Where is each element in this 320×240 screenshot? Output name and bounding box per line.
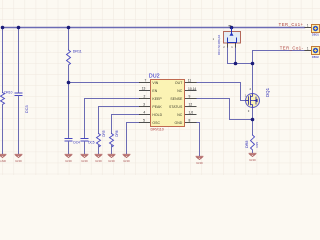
wire: coil right pin down	[235, 48, 237, 64]
svg-text:DC4: DC4	[73, 141, 80, 145]
terminal TER2	[305, 47, 320, 59]
ground x=98.5	[95, 154, 103, 157]
svg-text:VIN: VIN	[152, 81, 158, 85]
wire: SENSE net	[197, 99, 253, 120]
svg-text:DQ1: DQ1	[265, 87, 270, 97]
IC DU2 (DRV110) body	[149, 73, 185, 131]
pin 11 OUT stub	[185, 82, 197, 84]
pin 3 PEAK stub	[139, 106, 150, 108]
svg-text:1: 1	[307, 23, 309, 27]
pin 5 OSC stub	[139, 122, 150, 124]
wire: drop x=18.5 to capacitor DC3	[18, 28, 20, 93]
svg-text:GND: GND	[81, 159, 89, 163]
ground x=126.5	[123, 154, 131, 157]
svg-text:4: 4	[143, 110, 145, 114]
ground x=18.5	[15, 154, 23, 157]
wire: PEAK net down to resistor DR5	[99, 107, 140, 134]
svg-text:STATUS: STATUS	[169, 105, 183, 109]
wire: DC4 bottom to ground	[68, 142, 70, 154]
svg-text:KEEP: KEEP	[152, 97, 162, 101]
wire: VIN net horizontal	[69, 82, 140, 84]
ground symbols (bar + triangle + GND text)	[0, 153, 256, 159]
svg-text:GND: GND	[95, 159, 103, 163]
svg-text:NC: NC	[177, 89, 183, 93]
capacitor DC4	[65, 139, 72, 142]
node bus/DC3	[17, 26, 21, 30]
wire: DR8 to ground	[252, 150, 254, 153]
svg-text:NC: NC	[177, 113, 183, 117]
svg-text:GND: GND	[65, 159, 73, 163]
IC left pin stubs	[139, 83, 197, 123]
pin 12 STATUS stub	[185, 106, 197, 108]
svg-text:OUT: OUT	[175, 81, 183, 85]
svg-text:OSC: OSC	[152, 121, 160, 125]
svg-text:DR10: DR10	[4, 91, 12, 95]
ground x=111.5	[108, 154, 116, 157]
svg-text:GND: GND	[175, 121, 183, 125]
svg-text:8: 8	[189, 118, 191, 122]
svg-text:GND: GND	[108, 159, 116, 163]
pin 8 GND stub	[185, 122, 197, 124]
resistor DR6	[110, 134, 114, 148]
pin 7 VIN stub	[139, 82, 150, 84]
svg-text:TER_Co1+: TER_Co1+	[279, 22, 304, 27]
svg-text:2: 2	[143, 94, 145, 98]
svg-text:R15: R15	[255, 142, 259, 148]
wire: DC5 bottom to ground	[84, 142, 86, 154]
svg-text:EN: EN	[152, 89, 157, 93]
svg-text:PEAK: PEAK	[152, 105, 162, 109]
svg-text:11: 11	[188, 78, 192, 82]
svg-text:DB02: DB02	[312, 55, 320, 59]
wire: OSC net to ground	[127, 123, 140, 154]
svg-text:10,14: 10,14	[188, 87, 196, 91]
wire: GND pin to ground	[197, 123, 200, 156]
wire: top VIN bus	[3, 27, 305, 29]
svg-text:TER_Co1-: TER_Co1-	[280, 45, 304, 50]
svg-text:DC3.7V,40W,6A: DC3.7V,40W,6A	[217, 35, 221, 55]
svg-text:7: 7	[144, 78, 146, 82]
svg-text:1,6: 1,6	[189, 110, 194, 114]
svg-text:GND: GND	[249, 158, 257, 162]
IC pin numbers	[142, 78, 197, 122]
svg-text:GND: GND	[15, 159, 23, 163]
pin 9 SENSE stub	[185, 98, 197, 100]
svg-text:DC5: DC5	[88, 141, 95, 145]
node drain junction	[251, 62, 255, 66]
svg-text:DR5: DR5	[102, 130, 106, 137]
IC pin names	[152, 81, 183, 125]
terminal TER1	[305, 23, 320, 36]
node sense tap	[251, 118, 255, 122]
svg-text:GND: GND	[0, 159, 7, 163]
svg-text:DR6: DR6	[115, 130, 119, 137]
svg-text:GND: GND	[123, 159, 131, 163]
svg-text:DR11: DR11	[73, 49, 82, 53]
resistor DR5	[97, 134, 101, 148]
svg-text:9: 9	[189, 94, 191, 98]
pin 13 EN stub	[139, 90, 150, 92]
node bus/coil	[230, 26, 234, 30]
wire: KEEP net to capacitor DC5	[85, 99, 140, 139]
wire: OUT to MOSFET gate	[197, 83, 246, 101]
node coil pins join	[234, 62, 238, 66]
capacitor DC3	[15, 93, 22, 96]
resistor DR8	[251, 135, 255, 150]
pin 2 KEEP stub	[139, 98, 150, 100]
wire: DC3 bottom to ground	[18, 96, 20, 154]
svg-text:DR8: DR8	[245, 141, 249, 148]
pin 4 HOLD stub	[139, 114, 150, 116]
svg-text:5: 5	[143, 118, 145, 122]
resistor DR11	[67, 50, 71, 65]
svg-text:3: 3	[143, 102, 145, 106]
resistor DR10	[1, 93, 5, 105]
transistor DQ1 (MOSFET)	[245, 87, 260, 113]
wire: source vertical to sense resistor	[252, 108, 254, 136]
wire: DR10 bottom to ground	[2, 105, 4, 154]
ground x=2.5	[0, 154, 6, 157]
wire: left drop x=2.5 to resistor DR10	[2, 28, 4, 93]
wire: HOLD net down to resistor DR6	[112, 115, 140, 134]
svg-text:DU2: DU2	[149, 73, 160, 79]
svg-text:DC3: DC3	[25, 105, 29, 113]
pin 1,6 NC stub	[185, 114, 197, 116]
coil DL1 (solenoid)	[213, 26, 241, 49]
node VIN tap	[67, 81, 71, 85]
node bus left corner	[1, 26, 5, 30]
svg-text:DRV110: DRV110	[151, 128, 164, 132]
svg-text:1: 1	[307, 47, 309, 51]
pin 10,14 NC stub	[185, 90, 197, 92]
svg-text:GND: GND	[196, 161, 204, 165]
wire: drop x=68.5 from bus to resistor DR11	[68, 28, 70, 51]
junction node dots	[1, 26, 255, 122]
wire: DR5 bottom to ground	[98, 145, 100, 154]
wire: DR11 to VIN node and down to capacitor DC4	[68, 65, 70, 138]
ground x=84.5	[81, 154, 89, 157]
coil pin stubs	[228, 43, 236, 48]
ground x=199.5 (IC GND pin)	[196, 156, 204, 159]
wire: DR6 bottom to ground	[111, 145, 113, 154]
svg-text:13: 13	[142, 86, 146, 90]
node bus/DR11	[67, 26, 71, 30]
capacitor DC5	[81, 139, 88, 142]
wire: coil left pin down and across	[228, 48, 253, 64]
svg-text:DB01: DB01	[312, 32, 320, 36]
wire: coil node to terminal 2	[253, 51, 305, 64]
ground x=68.5	[65, 154, 73, 157]
ground x=252.5 (DR8)	[249, 153, 257, 156]
svg-text:HOLD: HOLD	[152, 113, 162, 117]
wire: drain vertical	[252, 64, 254, 94]
svg-text:SENSE: SENSE	[170, 97, 183, 101]
svg-text:12: 12	[189, 102, 193, 106]
